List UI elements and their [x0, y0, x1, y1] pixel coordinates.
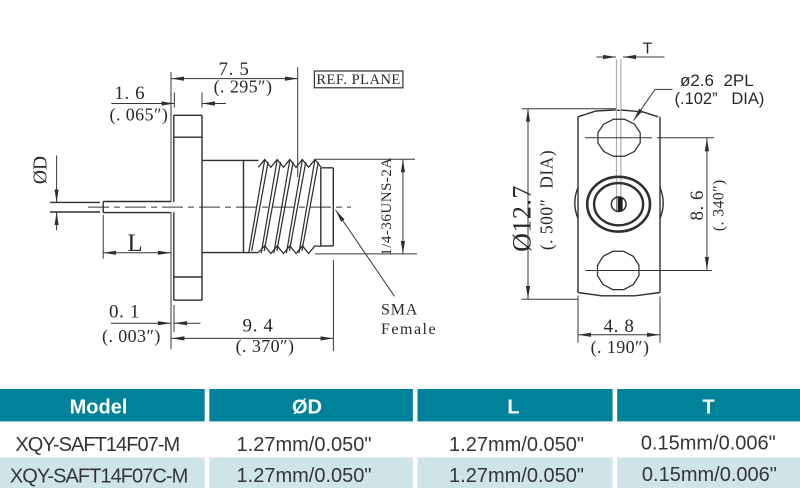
svg-text:0. 1: 0. 1	[109, 302, 140, 323]
svg-text:(. 003″): (. 003″)	[102, 326, 161, 347]
svg-text:1.27mm/0.050": 1.27mm/0.050"	[237, 465, 372, 487]
svg-text:1. 6: 1. 6	[114, 83, 145, 104]
svg-text:(. 190″): (. 190″)	[591, 337, 650, 358]
svg-text:L: L	[127, 230, 142, 257]
svg-text:(. 370″): (. 370″)	[236, 336, 295, 357]
svg-text:4. 8: 4. 8	[604, 316, 635, 337]
svg-text:XQY-SAFT14F07C-M: XQY-SAFT14F07C-M	[10, 465, 188, 487]
svg-text:1.27mm/0.050": 1.27mm/0.050"	[449, 465, 584, 487]
svg-text:1.27mm/0.050": 1.27mm/0.050"	[237, 434, 372, 456]
svg-text:9. 4: 9. 4	[243, 316, 274, 337]
svg-text:SMA: SMA	[381, 302, 418, 319]
svg-text:L: L	[507, 397, 519, 419]
svg-text:ø2.6 2PL: ø2.6 2PL	[680, 71, 754, 90]
svg-text:0.15mm/0.006": 0.15mm/0.006"	[642, 464, 777, 486]
svg-text:(. 065″): (. 065″)	[110, 105, 169, 126]
svg-text:(.102” DIA): (.102” DIA)	[675, 90, 765, 108]
svg-text:1.27mm/0.050": 1.27mm/0.050"	[449, 434, 584, 456]
svg-text:XQY-SAFT14F07-M: XQY-SAFT14F07-M	[15, 434, 179, 456]
svg-text:T: T	[702, 397, 714, 419]
svg-text:ØD: ØD	[292, 397, 322, 419]
svg-text:0.15mm/0.006": 0.15mm/0.006"	[641, 432, 776, 454]
svg-text:Female: Female	[381, 321, 437, 338]
svg-text:T: T	[643, 41, 653, 58]
svg-text:REF. PLANE: REF. PLANE	[316, 72, 400, 88]
svg-text:(. 500″ DIA): (. 500″ DIA)	[537, 150, 557, 250]
svg-text:1/4-36UNS-2A: 1/4-36UNS-2A	[379, 157, 395, 256]
svg-text:Model: Model	[70, 397, 128, 419]
svg-text:ØD: ØD	[31, 156, 52, 184]
svg-text:8. 6: 8. 6	[687, 190, 708, 221]
svg-text:Ø12.7: Ø12.7	[508, 185, 537, 252]
svg-text:(. 295″): (. 295″)	[214, 77, 273, 98]
svg-text:(. 340″): (. 340″)	[711, 179, 728, 231]
